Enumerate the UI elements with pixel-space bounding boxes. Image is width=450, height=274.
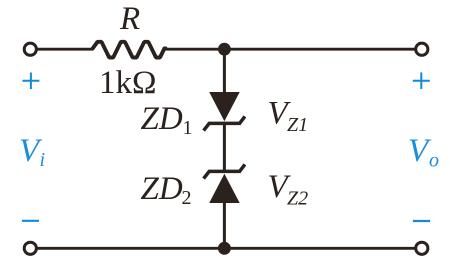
svg-text:o: o (429, 150, 439, 172)
terminal bottom-right (416, 242, 428, 254)
resistor R 1kOhm zigzag (92, 42, 166, 58)
svg-text:ZD: ZD (141, 101, 183, 137)
svg-text:1: 1 (183, 117, 193, 139)
zener diode ZD2 cathode bar (204, 164, 245, 178)
svg-text:R: R (119, 1, 140, 37)
svg-text:1kΩ: 1kΩ (99, 65, 157, 101)
minus right (413, 220, 430, 222)
node bottom junction (218, 242, 231, 255)
zener diode ZD1 triangle (anode up, pointing down) (209, 92, 240, 121)
svg-text:i: i (40, 149, 46, 171)
terminal bottom-left (24, 242, 36, 254)
terminal top-right (416, 43, 428, 55)
svg-text:2: 2 (182, 187, 192, 209)
wire middle branch lower (ZD2 to bottom node) (223, 203, 226, 248)
minus left (22, 220, 39, 222)
terminal top-left (24, 43, 36, 55)
svg-text:ZD: ZD (141, 171, 183, 207)
svg-text:Z1: Z1 (287, 114, 308, 136)
wire middle between ZD1 and ZD2 (223, 123, 226, 171)
plus right (413, 72, 430, 89)
svg-text:Z2: Z2 (287, 187, 308, 209)
plus left (22, 73, 39, 90)
wire top-right segment (165, 48, 416, 51)
wire bottom (37, 247, 416, 250)
node top junction (218, 43, 231, 56)
zener diode ZD1 cathode bar (204, 116, 245, 130)
wire top-left segment (37, 48, 94, 51)
zener diode ZD2 triangle (anode down, pointing up) (209, 174, 240, 203)
wire middle branch upper (top node to ZD1) (223, 49, 226, 94)
